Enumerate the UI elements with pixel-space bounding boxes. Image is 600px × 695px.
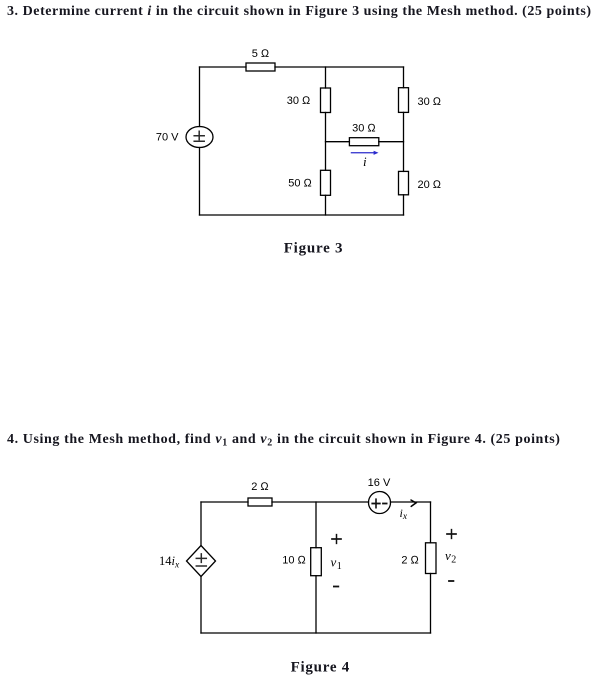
label 50 ohm <box>288 178 312 190</box>
label v2 <box>445 548 456 566</box>
svg-text:30 Ω: 30 Ω <box>418 96 442 108</box>
plus-minus symbol of 70V source <box>194 131 204 141</box>
svg-text:70 V: 70 V <box>156 132 179 144</box>
label 30 ohm branch <box>352 123 376 135</box>
wire left upper <box>199 67 201 127</box>
wire middle branch left <box>326 141 350 143</box>
label 10 ohm <box>282 555 306 567</box>
label 30 ohm middle top <box>287 95 311 107</box>
svg-text:v1: v1 <box>331 555 342 573</box>
svg-text:16 V: 16 V <box>368 477 391 489</box>
resistor R 10ohm <box>311 548 322 576</box>
resistor R 2ohm (right) <box>426 543 437 574</box>
label 16 V <box>368 477 391 489</box>
svg-text:2 Ω: 2 Ω <box>251 481 269 493</box>
svg-text:i: i <box>363 154 367 169</box>
svg-text:Figure 4: Figure 4 <box>291 660 350 676</box>
svg-text:10 Ω: 10 Ω <box>282 555 306 567</box>
current arrow ix (black chevron) <box>411 500 416 506</box>
svg-text:ix: ix <box>400 506 408 522</box>
wire right vertical bottom <box>403 195 405 215</box>
label 70 V <box>156 132 179 144</box>
resistor R 2ohm (top) <box>248 498 272 506</box>
plus sign v2 <box>447 530 456 539</box>
wire middle vertical top <box>325 67 327 88</box>
current arrow i (blue) <box>351 151 378 155</box>
wire top middle segment fig4 <box>272 501 369 503</box>
label i (blue) <box>363 154 367 169</box>
svg-text:20 Ω: 20 Ω <box>418 179 442 191</box>
label ix <box>400 506 408 522</box>
resistor R 30ohm (branch) <box>349 138 378 146</box>
wire middle vertical lower fig4 <box>315 576 317 633</box>
label 5 ohm <box>252 48 270 60</box>
label v1 <box>331 555 342 573</box>
resistor R 30ohm (right) <box>399 88 409 113</box>
plus sign v1 <box>332 535 341 544</box>
wire left upper fig4 <box>200 502 202 546</box>
wire top-right segment <box>275 66 404 68</box>
wire right vertical top <box>403 67 405 88</box>
wire right vertical upper fig4 <box>430 502 432 543</box>
svg-text:Figure 3: Figure 3 <box>284 240 343 256</box>
wire bottom <box>200 214 404 216</box>
resistor R 20ohm <box>399 171 409 194</box>
svg-text:30 Ω: 30 Ω <box>287 95 311 107</box>
svg-text:50 Ω: 50 Ω <box>288 178 312 190</box>
resistor R 50ohm <box>321 170 331 195</box>
label 2 ohm top <box>251 481 269 493</box>
source 16V <box>369 492 391 514</box>
wire top-left segment fig4 <box>201 501 248 503</box>
resistor R 30ohm (middle top) <box>321 88 331 113</box>
minus sign v1 <box>334 586 338 588</box>
svg-text:30 Ω: 30 Ω <box>352 123 376 135</box>
wire middle branch right <box>379 141 404 143</box>
wire right vertical mid <box>403 112 405 171</box>
svg-text:2 Ω: 2 Ω <box>401 554 419 566</box>
label 20 ohm <box>418 179 442 191</box>
svg-text:14ix: 14ix <box>159 554 180 571</box>
wire bottom fig4 <box>201 632 431 634</box>
svg-text:5 Ω: 5 Ω <box>252 48 270 60</box>
label 30 ohm right <box>418 96 442 108</box>
wire middle vertical bottom <box>325 195 327 215</box>
label 14ix <box>159 554 180 571</box>
wire middle vertical upper fig4 <box>315 502 317 548</box>
wire left lower fig4 <box>200 577 202 634</box>
dependent source 14ix (diamond) <box>187 546 216 577</box>
plus-minus symbol of diamond source <box>196 554 206 566</box>
minus sign v2 <box>449 580 453 582</box>
source V1 70V <box>186 127 213 148</box>
wire top-left segment <box>200 66 247 68</box>
problem 3 statement <box>7 4 592 20</box>
caption Figure 3 <box>284 240 343 256</box>
wire top right segment fig4 <box>391 501 431 503</box>
problem 4 statement <box>7 432 561 448</box>
wire right vertical lower fig4 <box>430 574 432 634</box>
wire middle vertical mid <box>325 113 327 171</box>
svg-text:v2: v2 <box>445 548 456 566</box>
plus-minus symbol of 16V source <box>372 499 386 508</box>
wire left lower <box>199 148 201 216</box>
resistor R 5ohm (top) <box>246 63 275 71</box>
caption Figure 4 <box>291 660 350 676</box>
label 2 ohm right <box>401 554 419 566</box>
